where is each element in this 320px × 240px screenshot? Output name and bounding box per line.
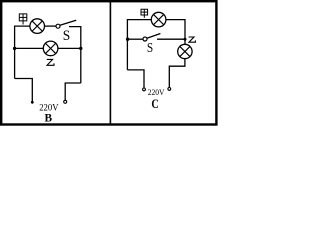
wire: top-left to lamp jia B <box>15 26 30 78</box>
label jia (B) <box>19 14 27 25</box>
outer frame <box>1 1 216 124</box>
lamp jia C <box>151 12 166 27</box>
terminal left (B) <box>31 101 34 104</box>
wire: lamp jia B to switch S <box>45 25 56 27</box>
wire: lamp jia C to top-right corner, down to lamp yi C <box>166 20 185 45</box>
wire: top-left to lamp jia C <box>127 20 151 70</box>
middle wire: right segment <box>58 47 81 49</box>
wire: bottom-right lead to terminal <box>65 83 81 100</box>
switch S (C) blade <box>147 34 161 39</box>
node: junction right (B) <box>79 47 82 50</box>
label yi (C) <box>189 37 196 42</box>
panel divider <box>109 0 111 125</box>
svg-text:C: C <box>151 96 158 111</box>
middle wire: left segment <box>15 47 44 49</box>
wire: switch fixed contact to right vertical <box>157 38 185 40</box>
lamp yi C <box>178 44 192 58</box>
wire: bottom-left lead to terminal <box>15 79 33 102</box>
switch S (B) blade <box>60 20 76 25</box>
switch S (C) pivot <box>143 37 147 41</box>
wire: switch fixed contact to top-right corner <box>69 27 81 83</box>
svg-text:B: B <box>44 110 52 124</box>
wire: lamp yi C down to bottom-right lead <box>169 59 185 88</box>
wire: bottom-left lead to terminal <box>127 70 144 88</box>
svg-text:S: S <box>147 40 153 55</box>
node: junction left (B) <box>13 47 16 50</box>
node: junction right (C) <box>184 38 187 41</box>
label jia (C) <box>141 9 148 18</box>
lamp yi B <box>43 41 58 56</box>
lamp jia B <box>30 19 45 34</box>
terminal right (B) <box>64 100 67 103</box>
switch S (B) pivot <box>56 24 60 28</box>
label yi (B) <box>47 59 54 65</box>
node: junction left (C) <box>126 38 129 41</box>
svg-text:S: S <box>63 28 71 44</box>
terminal left (C) <box>143 88 146 91</box>
middle wire: left segment to switch <box>127 38 142 40</box>
terminal right (C) <box>168 88 171 91</box>
